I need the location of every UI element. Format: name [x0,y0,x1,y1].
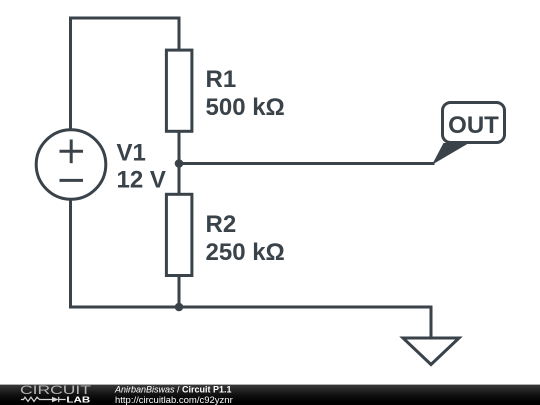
svg-text:12 V: 12 V [117,166,166,193]
wire ground lead [430,307,433,337]
voltage source V1 [36,130,106,200]
svg-text:AnirbanBiswas / Circuit P1.1: AnirbanBiswas / Circuit P1.1 [114,384,232,394]
svg-text:250 kΩ: 250 kΩ [206,239,285,266]
label R1 500 kΩ [206,66,285,121]
svg-text:500 kΩ: 500 kΩ [206,94,285,121]
flag OUT tail [432,143,469,165]
label R2 250 kΩ [206,211,285,266]
resistor R2 [166,194,192,275]
label V1 12 V [117,140,166,194]
wire R1 to node [178,131,181,164]
ground [403,338,459,365]
svg-text:http://circuitlab.com/c92yznr: http://circuitlab.com/c92yznr [115,395,233,405]
resistor R1 [166,50,192,131]
svg-text:LAB: LAB [66,395,90,404]
svg-text:R1: R1 [206,66,237,93]
logo resistor zigzag and diode [21,397,66,402]
wire R2 to bottom [178,274,181,307]
wire bottom [71,306,432,309]
flag OUT box [443,103,505,143]
wire top loop [71,18,180,129]
wire V1 bottom lead [69,200,72,307]
wire node to OUT [179,162,433,165]
wire node to R2 [178,164,181,196]
node junction bottom [175,303,184,312]
node junction top [175,159,184,168]
svg-text:R2: R2 [206,211,237,238]
svg-text:OUT: OUT [448,112,499,139]
svg-text:V1: V1 [117,140,146,167]
